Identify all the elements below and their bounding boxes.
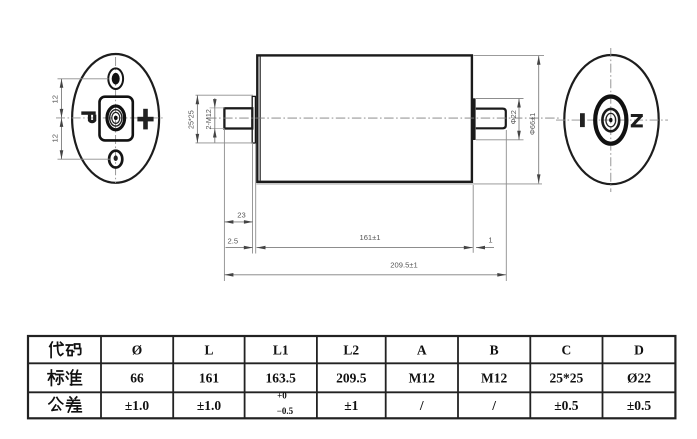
- right shaft: [476, 109, 506, 129]
- svg-text:±0.5: ±0.5: [554, 398, 579, 413]
- left shaft: [224, 108, 252, 128]
- svg-text:66: 66: [130, 371, 144, 386]
- svg-text:M12: M12: [409, 371, 435, 386]
- dim 209.5±1: [224, 260, 506, 276]
- svg-text:163.5: 163.5: [266, 371, 297, 386]
- polarity minus sign: [580, 113, 585, 127]
- svg-text:B: B: [490, 343, 499, 358]
- svg-text:209.5±1: 209.5±1: [390, 260, 417, 269]
- svg-text:Ø: Ø: [132, 343, 143, 358]
- table grid: [28, 336, 675, 418]
- left view vertical centerline: [115, 57, 117, 183]
- 25*25 extension lines: [196, 94, 254, 96]
- dim phi22 dimension line: [518, 99, 520, 140]
- svg-text:±1: ±1: [344, 398, 358, 413]
- phi22 extension lines: [476, 98, 524, 100]
- CJK label 代码 (code): [50, 342, 81, 358]
- svg-text:−0.5: −0.5: [277, 406, 294, 416]
- dim 12/12 extension lines: [58, 78, 109, 80]
- right end view outer ellipse: [564, 55, 658, 184]
- 2-M12 short extension lines: [210, 107, 225, 109]
- left view bottom terminal: [109, 151, 122, 168]
- dim 161±1: [257, 233, 473, 250]
- phi66 bottom extension line: [257, 183, 543, 185]
- right boss disc: [472, 98, 475, 140]
- svg-text:2-M12: 2-M12: [204, 109, 213, 129]
- left end view outer ellipse: [72, 54, 159, 183]
- svg-text:25*25: 25*25: [550, 371, 584, 386]
- dim 2.5: [226, 236, 253, 249]
- left view center shaft rings: [107, 106, 125, 130]
- CJK label 标准 (standard): [48, 370, 82, 386]
- main axis centerline: [207, 117, 559, 119]
- svg-text:23: 23: [237, 210, 245, 219]
- dim 2-M12 dimension line: [214, 98, 216, 142]
- left view rounded square flange: [100, 97, 133, 141]
- dim phi66±1 dimension line: [538, 56, 540, 184]
- polarity letter N: [631, 114, 643, 127]
- polarity letter P: [81, 111, 95, 121]
- right view shaft boss rings: [595, 97, 626, 144]
- svg-text:±1.0: ±1.0: [125, 398, 150, 413]
- svg-text:161: 161: [199, 371, 220, 386]
- svg-text:L2: L2: [343, 343, 359, 358]
- svg-text:/: /: [419, 398, 424, 413]
- svg-text:±0.5: ±0.5: [627, 398, 652, 413]
- table header row text: [132, 343, 644, 358]
- svg-text:Ø22: Ø22: [627, 371, 651, 386]
- left flange plate: [252, 96, 255, 143]
- phi66 top extension line: [474, 55, 545, 57]
- dim 12/12 dimension line: [61, 79, 63, 159]
- svg-text:161±1: 161±1: [359, 233, 380, 242]
- svg-text:C: C: [562, 343, 572, 358]
- svg-text:Φ22: Φ22: [509, 110, 518, 124]
- CJK label 公差 (tolerance): [49, 397, 81, 412]
- polarity plus sign: [137, 109, 153, 130]
- dim 1: [476, 235, 494, 249]
- right view horizontal centerline: [556, 119, 668, 121]
- left view top terminal: [108, 68, 123, 89]
- svg-text:12: 12: [51, 95, 60, 103]
- svg-text:25*25: 25*25: [187, 110, 196, 129]
- svg-text:/: /: [491, 398, 496, 413]
- table tolerance row text: [125, 398, 652, 413]
- extension verticals below drawing: [223, 129, 225, 281]
- right view vertical centerline: [610, 48, 612, 192]
- svg-text:Φ66±1: Φ66±1: [528, 113, 537, 135]
- svg-text:1: 1: [488, 235, 492, 244]
- svg-text:L1: L1: [273, 343, 289, 358]
- svg-text:M12: M12: [481, 371, 507, 386]
- dim 25*25 dimension line: [196, 95, 198, 143]
- svg-text:12: 12: [51, 134, 60, 142]
- dim 23: [224, 210, 253, 223]
- main body outline: [257, 55, 472, 181]
- L1 tolerance stacked +0 / -0.5: [277, 391, 294, 417]
- svg-text:209.5: 209.5: [336, 371, 367, 386]
- svg-text:±1.0: ±1.0: [197, 398, 222, 413]
- left view horizontal centerline: [56, 117, 164, 119]
- svg-text:A: A: [417, 343, 427, 358]
- table standard row text: [130, 371, 651, 386]
- svg-text:D: D: [634, 343, 644, 358]
- svg-text:L: L: [204, 343, 213, 358]
- svg-text:+0: +0: [277, 391, 287, 401]
- svg-text:2.5: 2.5: [228, 236, 239, 245]
